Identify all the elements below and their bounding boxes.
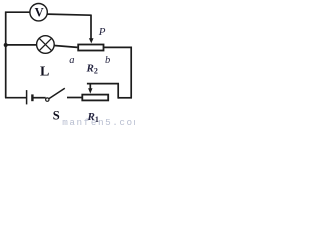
svg-text:L: L [40,65,49,80]
switch S lever [49,88,65,99]
wire: bottom-right horizontal left [118,97,132,99]
svg-text:manfen5.com: manfen5.com [62,117,135,126]
wiper riser and arrowhead onto R1 [89,84,91,89]
wire: lamp to R2 left terminal a [54,46,77,48]
wiper arrowhead P onto R2 [89,38,94,43]
wire: R1 left terminal to switch [67,97,82,99]
svg-text:R2: R2 [86,63,98,76]
lamp L [37,36,55,54]
resistor R1 (rheostat body) [82,95,108,101]
wire: right vertical down [130,47,132,98]
voltmeter U-V [30,4,47,21]
wire: left bus to battery [5,97,27,99]
wire: left vertical bus [5,12,7,98]
svg-text:V: V [35,5,44,19]
resistor R2 (slide rheostat body, terminals a/b) [78,45,103,51]
svg-text:P: P [98,26,106,38]
svg-text:b: b [105,55,110,66]
wire: voltmeter to top-right corner (slight sag) [47,14,91,15]
wire: battery to switch [34,97,46,99]
wire: R2 b terminal to right corner [104,46,132,48]
node: junction on left bus [4,43,8,47]
wire: junction to lamp [6,44,37,46]
switch pivot contact [46,98,49,101]
wire: top row from left corner to voltmeter [5,11,30,13]
wire: step horizontal to R1 wiper [87,83,119,85]
svg-text:a: a [69,55,74,66]
battery negative short plate [31,94,33,101]
wire: step vertical up [117,84,119,99]
svg-text:S: S [53,108,60,122]
wire: vertical drop to wiper P [90,15,92,39]
battery positive long plate [26,90,28,104]
